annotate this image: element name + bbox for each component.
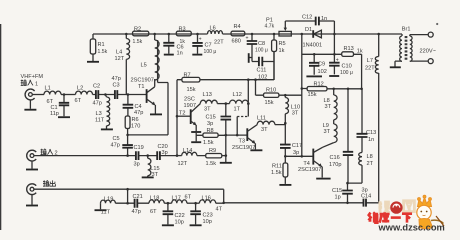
svg-text:R12: R12 xyxy=(314,82,324,88)
svg-text:3T: 3T xyxy=(152,172,159,178)
svg-text:47p: 47p xyxy=(132,209,141,215)
svg-text:47p: 47p xyxy=(134,110,143,116)
svg-text:3p: 3p xyxy=(162,150,168,156)
svg-text:T2: T2 xyxy=(179,111,186,117)
svg-text:3p: 3p xyxy=(134,161,140,167)
svg-text:L17: L17 xyxy=(172,195,181,201)
svg-text:T3: T3 xyxy=(239,139,246,145)
svg-text:1p: 1p xyxy=(335,195,341,201)
svg-text:C3: C3 xyxy=(113,83,120,89)
svg-text:680: 680 xyxy=(232,39,241,45)
svg-text:C23: C23 xyxy=(203,212,213,218)
svg-text:47p: 47p xyxy=(93,101,102,107)
svg-text:11T: 11T xyxy=(101,209,111,215)
svg-text:1k: 1k xyxy=(357,49,363,55)
svg-text:1.5k: 1.5k xyxy=(98,49,108,55)
svg-text:2T: 2T xyxy=(367,161,374,167)
svg-text:R2: R2 xyxy=(134,26,141,32)
svg-text:15k: 15k xyxy=(187,87,196,93)
svg-text:L12: L12 xyxy=(233,92,242,98)
svg-text:R13: R13 xyxy=(344,46,354,52)
svg-text:1k: 1k xyxy=(279,48,285,54)
svg-text:+: + xyxy=(336,58,339,64)
svg-text:R8: R8 xyxy=(207,128,214,134)
svg-text:C19: C19 xyxy=(134,145,144,151)
svg-text:R4: R4 xyxy=(234,24,241,30)
svg-text:1n: 1n xyxy=(321,16,327,22)
svg-text:C22: C22 xyxy=(175,213,185,219)
svg-text:1.5k: 1.5k xyxy=(203,140,214,146)
svg-text:12T: 12T xyxy=(178,161,188,167)
svg-text:102: 102 xyxy=(318,69,327,75)
svg-text:Br1: Br1 xyxy=(402,27,411,33)
svg-text:11T: 11T xyxy=(95,118,105,124)
svg-text:+: + xyxy=(199,37,202,43)
svg-text:C21: C21 xyxy=(133,194,143,200)
svg-text:C8: C8 xyxy=(258,41,265,47)
svg-text:L7: L7 xyxy=(367,58,373,64)
svg-text:1: 1 xyxy=(35,81,38,87)
svg-text:170p: 170p xyxy=(329,162,341,168)
svg-text:47p: 47p xyxy=(112,76,121,82)
svg-text:D1: D1 xyxy=(305,27,312,33)
svg-text:22T: 22T xyxy=(214,40,224,46)
svg-text:C17: C17 xyxy=(292,143,302,149)
svg-text:1907: 1907 xyxy=(184,103,196,109)
svg-text:10p: 10p xyxy=(203,219,212,225)
svg-text:L16: L16 xyxy=(202,195,211,201)
svg-text:2SC1907: 2SC1907 xyxy=(232,145,255,151)
svg-text:1.5k: 1.5k xyxy=(206,161,217,167)
svg-text:6T: 6T xyxy=(75,98,82,104)
svg-text:C15: C15 xyxy=(206,115,216,121)
svg-text:6T: 6T xyxy=(185,194,192,200)
svg-text:2SC1907: 2SC1907 xyxy=(131,78,154,84)
svg-text:+: + xyxy=(246,36,249,42)
svg-text:3T: 3T xyxy=(261,127,268,133)
svg-text:L5: L5 xyxy=(141,63,147,69)
svg-text:6T: 6T xyxy=(150,209,157,215)
svg-text:3T: 3T xyxy=(292,110,299,116)
svg-text:T1: T1 xyxy=(138,84,145,90)
svg-text:C15: C15 xyxy=(332,188,342,194)
svg-text:3T: 3T xyxy=(325,104,332,110)
svg-text:L18: L18 xyxy=(150,195,159,201)
svg-text:11p: 11p xyxy=(50,111,59,117)
svg-text:L3: L3 xyxy=(96,111,102,117)
svg-text:R6: R6 xyxy=(132,117,139,123)
svg-text:L19: L19 xyxy=(104,196,113,202)
svg-text:R1: R1 xyxy=(98,42,105,48)
svg-text:R3: R3 xyxy=(179,26,186,32)
svg-text:C12: C12 xyxy=(302,15,312,21)
svg-text:10p: 10p xyxy=(175,220,184,226)
svg-text:C7: C7 xyxy=(205,43,212,49)
svg-text:1N4001: 1N4001 xyxy=(303,43,323,49)
svg-text:15k: 15k xyxy=(308,92,317,98)
svg-text:4.7k: 4.7k xyxy=(265,24,275,30)
svg-text:220V~: 220V~ xyxy=(420,49,437,55)
svg-text:R11: R11 xyxy=(272,164,282,170)
svg-text:L6: L6 xyxy=(210,26,216,32)
svg-text:C10: C10 xyxy=(342,64,352,70)
svg-text:C9: C9 xyxy=(318,62,325,68)
svg-text:L14: L14 xyxy=(183,148,192,154)
svg-text:100 μ: 100 μ xyxy=(255,48,268,54)
svg-text:1.5k: 1.5k xyxy=(133,39,143,45)
svg-text:L15: L15 xyxy=(150,166,159,172)
svg-text:100 μ: 100 μ xyxy=(204,49,217,55)
svg-text:22T: 22T xyxy=(365,66,375,72)
svg-text:1n: 1n xyxy=(368,137,374,143)
svg-text:100 μ: 100 μ xyxy=(340,70,353,76)
svg-text:3p: 3p xyxy=(293,150,299,156)
svg-text:3T: 3T xyxy=(204,106,211,112)
svg-text:12T: 12T xyxy=(115,56,125,62)
svg-text:1T: 1T xyxy=(234,106,241,112)
svg-text:4T: 4T xyxy=(216,206,223,212)
svg-text:R7: R7 xyxy=(184,73,191,79)
svg-text:L13: L13 xyxy=(203,92,212,98)
svg-text:R10: R10 xyxy=(266,88,276,94)
svg-text:C13: C13 xyxy=(366,130,376,136)
svg-text:1n: 1n xyxy=(177,51,183,57)
svg-text:C11: C11 xyxy=(257,68,267,74)
svg-text:47p: 47p xyxy=(111,143,120,149)
svg-text:www.dzsc.com: www.dzsc.com xyxy=(378,223,445,233)
svg-text:1.5k: 1.5k xyxy=(271,170,282,176)
svg-text:L2: L2 xyxy=(77,86,83,92)
svg-text:VHF+FM: VHF+FM xyxy=(21,74,44,80)
svg-text:3T: 3T xyxy=(324,129,331,135)
svg-text:C5: C5 xyxy=(113,136,120,142)
svg-text:C2: C2 xyxy=(93,84,100,90)
svg-text:L11: L11 xyxy=(257,115,266,121)
svg-text:R9: R9 xyxy=(209,148,216,154)
svg-text:2SC: 2SC xyxy=(184,97,195,103)
svg-text:15k: 15k xyxy=(265,100,274,106)
svg-text:170: 170 xyxy=(131,124,140,130)
svg-text:R5: R5 xyxy=(279,41,286,47)
svg-text:C14: C14 xyxy=(361,194,371,200)
svg-text:L8: L8 xyxy=(367,154,373,160)
svg-text:2SC1907: 2SC1907 xyxy=(298,167,321,173)
svg-text:C16: C16 xyxy=(330,155,340,161)
svg-text:L4: L4 xyxy=(116,50,122,56)
svg-text:3p: 3p xyxy=(207,121,213,127)
svg-text:L1: L1 xyxy=(45,86,51,92)
